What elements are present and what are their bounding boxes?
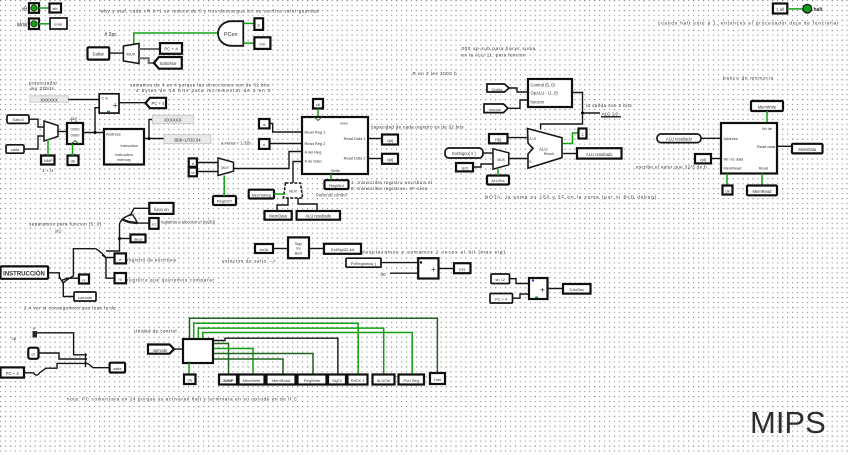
wire ctrl out green to ALUSrc tunnel	[198, 328, 383, 374]
wire ctrl out green to RegDst tunnel	[194, 323, 359, 374]
adder branch	[418, 258, 438, 278]
svg-text:ALU resultado: ALU resultado	[666, 137, 693, 142]
svg-text:x[d]: x[d]	[461, 166, 467, 171]
svg-text:00: 00	[381, 272, 387, 277]
svg-text:000 op-sub para hacer suma: 000 op-sub para hacer suma	[462, 46, 536, 51]
wire	[68, 99, 99, 101]
node select wire (PCen to demux)	[134, 33, 218, 46]
control unit box	[183, 339, 213, 363]
tunnel MemData out	[792, 144, 823, 154]
wire	[701, 137, 721, 139]
tunnel PC + 4 out	[145, 98, 166, 108]
svg-text:MemRead: MemRead	[272, 378, 290, 383]
svg-text:cuando halt este a 1, entonces: cuando halt este a 1, entonces el proces…	[658, 21, 839, 26]
wire control out	[572, 93, 600, 114]
label alb	[50, 4, 62, 13]
svg-text:PcRegistros( ): PcRegistros( )	[351, 261, 377, 266]
svg-text:R[t]: R[t]	[495, 137, 501, 142]
wire PC to memory with node	[83, 132, 104, 134]
wire green regwrite	[330, 174, 332, 180]
probe E	[254, 18, 263, 30]
svg-text:rs: rs	[119, 277, 122, 282]
data memory	[721, 123, 777, 174]
tunnel SigEx c	[328, 375, 346, 385]
svg-text:rd: rd	[191, 171, 194, 175]
svg-text:estacion de salto -->: estacion de salto -->	[222, 259, 276, 264]
svg-text:2 A ver si conseguimos que lea: 2 A ver si conseguimos que lean la de...	[24, 306, 121, 311]
svg-text:Opbits: Opbits	[492, 88, 503, 92]
svg-text:cp: cp	[12, 336, 17, 341]
wire	[711, 158, 721, 160]
tunnel x[d] alu	[456, 163, 473, 171]
wire	[513, 294, 530, 298]
wire	[174, 348, 183, 350]
svg-text:ALU: ALU	[539, 147, 548, 152]
svg-text:0: transcribe registros. 4F si: 0: transcribe registros. 4F sino	[351, 186, 428, 191]
wire instr out with node	[144, 138, 164, 140]
wire green	[766, 111, 768, 123]
wire B input	[509, 158, 528, 160]
instruction memory	[104, 129, 144, 165]
splitter S1	[59, 249, 96, 288]
svg-text:clk: clk	[71, 159, 76, 164]
wire PC+4 to merger with hop	[24, 363, 84, 375]
svg-text:SigTx: SigTx	[332, 378, 342, 383]
tunnel opcode	[148, 345, 174, 354]
svg-text:decp: decp	[134, 238, 142, 242]
wire	[139, 58, 154, 63]
svg-text:MemToReg: MemToReg	[252, 193, 271, 197]
tunnel Im16	[255, 244, 273, 253]
svg-text:+: +	[113, 101, 118, 111]
tunnel PC + 4 b	[490, 294, 513, 304]
svg-text:potenciador: potenciador	[29, 81, 58, 86]
wire select green	[223, 176, 225, 197]
wire zero flag green	[563, 133, 579, 144]
tunnel NMP select	[41, 156, 55, 165]
tunnel RegDst c	[348, 375, 368, 385]
mux RegDst	[218, 158, 234, 176]
svg-text:RegWrd: RegWrd	[329, 183, 344, 188]
and-gate PCen (facing west)	[218, 21, 243, 46]
pin halt	[773, 4, 787, 14]
svg-text:INSTRUCCIÓN: INSTRUCCIÓN	[3, 269, 45, 277]
svg-text:+: +	[540, 286, 545, 295]
svg-text:Saltar: Saltar	[93, 52, 105, 57]
wire memread green	[761, 174, 763, 186]
tunnel R[t]	[489, 134, 508, 143]
wire	[139, 48, 160, 50]
tunnel ExtSig 32bits	[324, 244, 361, 254]
wire	[787, 8, 803, 10]
box comode	[74, 292, 96, 301]
tunnel SaltoNor	[154, 57, 182, 69]
svg-text:BBb=LR33.04: BBb=LR33.04	[174, 138, 201, 143]
svg-text:A de Dato: A de Dato	[305, 159, 322, 164]
svg-text:Salto3: Salto3	[12, 117, 24, 122]
svg-text:rs: rs	[82, 278, 85, 283]
tunnel ALU resultado in	[657, 134, 701, 143]
svg-text:MUX: MUX	[289, 190, 298, 194]
adder jump	[529, 278, 548, 299]
svg-text:Wr i te data: Wr i te data	[724, 157, 745, 162]
sign extend box	[288, 237, 309, 258]
svg-text:(re): (re)	[459, 267, 466, 272]
wire control to ALU	[541, 113, 583, 130]
svg-text:1: transcribe registro escribi: 1: transcribe registro escribira el	[351, 180, 433, 185]
svg-text:memory: memory	[117, 158, 131, 162]
label PC + 4	[160, 43, 182, 54]
wire green select	[274, 193, 286, 195]
wire S1 to rs	[66, 277, 79, 279]
wire clk green	[188, 363, 190, 374]
wire	[243, 42, 254, 44]
svg-text:registro que queremos comparar: registro que queremos comparar	[127, 278, 215, 283]
tunnel ALUSrc c	[373, 375, 395, 385]
svg-text:PcU Reg: PcU Reg	[403, 378, 419, 383]
box rd small	[149, 218, 158, 229]
svg-text:E: E	[257, 22, 260, 27]
svg-text:vB: vB	[22, 7, 29, 13]
svg-text:nota: PC comenzara en 24 porqu: nota: PC comenzara en 24 porque su activ…	[67, 397, 298, 402]
wire ctrl out dark green to JUMP	[213, 344, 229, 375]
wire	[390, 272, 418, 274]
wire	[109, 52, 123, 54]
tunnel x[d] dm	[695, 154, 711, 163]
svg-text:Halt: Halt	[434, 377, 442, 382]
splitter merger	[84, 353, 110, 367]
tunnel MemToReg select	[249, 190, 274, 199]
svg-text:salta: salta	[113, 366, 122, 371]
svg-text:Read Reg 1: Read Reg 1	[305, 130, 326, 135]
svg-text:MUX: MUX	[127, 52, 136, 57]
tunnel rs in	[259, 119, 270, 128]
tunnel ALUSrc	[487, 176, 509, 185]
svg-text:x[d]: x[d]	[700, 157, 706, 162]
svg-text:R: R	[33, 327, 36, 331]
probe XXXXXX (PC value)	[30, 96, 68, 103]
tunnel suma out	[454, 263, 471, 273]
wire	[273, 248, 288, 250]
control ALU box	[528, 79, 572, 107]
svg-text:clk: clk	[187, 378, 192, 383]
label brn	[254, 37, 270, 49]
svg-text:Control (5..0): Control (5..0)	[531, 83, 556, 88]
tunnel JUMP	[219, 375, 237, 385]
wire	[473, 164, 493, 167]
wire ctrl out green to PcReg tunnel	[203, 333, 412, 375]
wire	[270, 143, 303, 145]
svg-text:MUX: MUX	[497, 158, 505, 162]
constant R	[33, 327, 38, 338]
svg-text:MrW: MrW	[17, 23, 28, 29]
wire	[197, 162, 218, 164]
svg-text:Address: Address	[724, 136, 738, 141]
svg-text:capacidad de cada registro es: capacidad de cada registro es de 32 bits	[371, 125, 464, 130]
tunnel Saltar	[88, 47, 110, 59]
tunnel clk control	[184, 375, 196, 385]
svg-text:Address: Address	[106, 132, 121, 137]
wire	[509, 88, 528, 92]
tunnel clk above register file	[313, 99, 323, 109]
box decp	[131, 235, 146, 243]
svg-text:Im16: Im16	[260, 247, 270, 252]
tunnel funcion	[484, 104, 508, 113]
demux MUX	[123, 43, 139, 63]
svg-text:comode: comode	[78, 295, 93, 300]
svg-text:ExtSigno( s ): ExtSigno( s )	[452, 151, 476, 156]
mux PCsrc	[44, 121, 58, 141]
wire mux to WriteReg	[234, 152, 303, 169]
wire ALUres up	[298, 198, 317, 211]
wire	[24, 136, 44, 149]
svg-text:MemRead: MemRead	[724, 166, 742, 171]
wire green select	[497, 169, 499, 176]
svg-text:XXXXXX: XXXXXX	[164, 118, 182, 123]
wire adder to PC bus	[95, 108, 99, 133]
tunnel rs (to mux RegDst)	[189, 158, 197, 166]
wire ctrl out dark green to box3	[213, 359, 283, 375]
input pin MrW	[17, 19, 39, 30]
wire	[510, 279, 530, 284]
svg-text:Write: Write	[331, 168, 340, 173]
svg-text:PC + 4: PC + 4	[495, 297, 508, 302]
svg-text:XXXXXX: XXXXXX	[40, 97, 58, 102]
wire ctrl out dark green to halt tunnel	[190, 318, 438, 373]
svg-text:ALU resultado: ALU resultado	[305, 214, 332, 219]
splitter S2	[96, 249, 115, 279]
svg-text:funcion: funcion	[531, 100, 545, 105]
svg-text:A <5: A <5	[530, 137, 537, 141]
tunnel ALU resultado out	[577, 148, 622, 158]
box rt	[115, 253, 127, 263]
svg-text:ALC 1,0: ALC 1,0	[602, 111, 619, 116]
wire read data 1 out	[368, 138, 382, 140]
register PC	[67, 118, 83, 145]
svg-text:MIPS: MIPS	[750, 405, 826, 440]
svg-text:Punto de control: Punto de control	[316, 193, 347, 198]
wire	[39, 23, 50, 25]
wire	[29, 119, 44, 127]
svg-text:SaltoNor: SaltoNor	[159, 61, 177, 66]
probe instr value	[164, 135, 211, 144]
svg-text:MemData: MemData	[269, 214, 287, 219]
tunnel RegDST	[213, 196, 236, 205]
svg-text:PCen: PCen	[224, 32, 238, 38]
tunnel RegWrd enable	[325, 180, 349, 189]
svg-text:B: B	[530, 160, 532, 164]
wire	[119, 102, 145, 104]
svg-text:MemRead: MemRead	[753, 189, 773, 194]
component clr	[28, 348, 38, 359]
svg-text:# 2pc: # 2pc	[105, 32, 118, 38]
tunnel PC + 4 c	[1, 367, 25, 377]
wire clk green	[72, 144, 74, 156]
svg-text:rs: rs	[263, 123, 266, 127]
svg-text:opmode: opmode	[153, 348, 169, 353]
svg-text:Instruction: Instruction	[115, 153, 133, 157]
svg-text:C in: C in	[102, 97, 108, 101]
svg-text:rd: rd	[152, 223, 155, 227]
svg-text:R en 3 les 3000 b: R en 3 les 3000 b	[413, 71, 458, 76]
wire node to decp	[120, 238, 131, 240]
tunnel ALU resultado wb	[297, 211, 340, 220]
svg-text:Read: Read	[759, 166, 768, 171]
svg-text:OpALU - (1..0): OpALU - (1..0)	[531, 91, 559, 96]
mux ALUSrc	[493, 149, 509, 169]
svg-text:x(U: x(U	[55, 229, 62, 234]
wire	[243, 22, 254, 24]
wire ctrl out black bus	[213, 338, 338, 374]
wire up from S2 to S3 with node	[106, 224, 120, 251]
svg-text:Read Data 1: Read Data 1	[344, 136, 366, 141]
label enal	[50, 18, 67, 29]
tunnel x[d] out2	[382, 154, 398, 164]
probe 0000000	[152, 115, 193, 124]
LED halt	[803, 4, 823, 13]
box rs2	[115, 273, 127, 283]
svg-text:S.ltoSec: S.ltoSec	[569, 287, 584, 292]
tunnel clk dm	[723, 186, 733, 195]
svg-text:MemWrite: MemWrite	[758, 104, 777, 109]
wire instruccion to splitter	[48, 273, 59, 279]
svg-text:ALUCtrl: ALUCtrl	[377, 378, 391, 383]
tunnel RegWrite c	[298, 375, 327, 385]
svg-text:Read Data 2: Read Data 2	[344, 156, 366, 161]
svg-text:rt: rt	[263, 143, 265, 147]
tunnel MemWrite top	[751, 101, 783, 111]
tunnel SaltoSec	[563, 284, 591, 294]
svg-text:brn: brn	[260, 41, 266, 46]
tunnel PcReg c	[399, 375, 425, 385]
svg-text:x[d]: x[d]	[387, 157, 393, 162]
svg-text:RdCK 1: RdCK 1	[351, 378, 365, 383]
wire clk green	[726, 174, 728, 186]
svg-text:halt: halt	[814, 7, 823, 13]
svg-text:Wr ite: Wr ite	[762, 126, 772, 131]
svg-text:+: +	[431, 265, 436, 274]
svg-text:separamos para funcion [5..0]: separamos para funcion [5..0]	[29, 222, 102, 227]
svg-text:0000: 0000	[71, 127, 81, 132]
svg-text:a veces = 1 32b: a veces = 1 32b	[221, 141, 251, 146]
tunnel Salto (PC src a)	[7, 115, 29, 123]
register file	[302, 117, 368, 174]
wire	[483, 152, 493, 154]
wire	[381, 262, 418, 264]
tunnel carta	[6, 145, 24, 153]
tunnel MemRead c	[267, 375, 296, 385]
svg-text:Read Reg 2: Read Reg 2	[305, 141, 326, 146]
svg-text:escribe el valor que 32/3 de b: escribe el valor que 32/3 de b	[636, 165, 707, 170]
svg-text:MemWrite: MemWrite	[243, 378, 261, 383]
svg-text:MUX: MUX	[221, 166, 229, 170]
tunnel MemRead	[747, 186, 777, 196]
tunnel Op bits	[487, 84, 509, 92]
svg-text:-NMP: -NMP	[43, 158, 54, 163]
mux MemToReg (points up)	[283, 183, 302, 198]
svg-text:alb: alb	[52, 6, 58, 11]
tunnel MemWrite c	[239, 375, 265, 385]
wire	[197, 171, 218, 173]
svg-text:Unidad de control: Unidad de control	[134, 329, 177, 334]
svg-text:clk: clk	[316, 103, 321, 107]
wire	[39, 7, 49, 9]
wire	[439, 268, 455, 270]
svg-text:1 all: 1 all	[776, 7, 784, 12]
wire writeback to A de Dato	[293, 162, 302, 184]
svg-text:rt: rt	[192, 162, 194, 166]
svg-text:0000: 0000	[71, 133, 81, 138]
tunnel PcRegistros	[346, 258, 381, 267]
svg-text:Result: Result	[544, 152, 554, 156]
tunnel shift	[491, 274, 510, 284]
alu U1	[528, 129, 563, 169]
wire	[309, 248, 324, 250]
svg-text:4 bytes de 16 bits para increm: 4 bytes de 16 bits para incrementar de 3…	[136, 88, 272, 93]
adder PC+4	[99, 94, 119, 113]
svg-text:RegDST: RegDST	[217, 199, 233, 204]
wire S1 down to comode	[63, 287, 74, 297]
svg-text:banco de memoria: banco de memoria	[723, 76, 774, 81]
svg-text:clk: clk	[725, 189, 730, 193]
svg-text:-iky 32bits: -iky 32bits	[29, 86, 55, 91]
box rs	[79, 275, 89, 284]
tunnel rt (to mux RegDst)	[189, 168, 197, 177]
tunnel clk under PC	[68, 156, 79, 166]
svg-text:PC + 4: PC + 4	[152, 101, 166, 106]
svg-text:ExtSig/32-bit: ExtSig/32-bit	[331, 247, 355, 252]
svg-text:Read data: Read data	[757, 144, 776, 149]
wire mux to PC	[58, 131, 67, 133]
svg-text:xxxx: xxxx	[340, 122, 348, 126]
wire clk green	[317, 109, 319, 118]
wire ctrl out green to box2	[213, 349, 253, 375]
wire	[508, 100, 528, 108]
svg-text:MemData: MemData	[798, 147, 816, 152]
wire read data 2 out	[368, 158, 382, 160]
wire select green	[47, 139, 49, 156]
svg-text:ALU resultado: ALU resultado	[586, 152, 613, 157]
wire	[548, 288, 564, 290]
input pin wb	[22, 3, 39, 13]
svg-text:Bext: Bext	[295, 251, 302, 255]
svg-text:sumamos de 4 en 4 porque las d: sumamos de 4 en 4 porque las direcciones…	[130, 83, 270, 88]
svg-text:x[d]: x[d]	[387, 138, 393, 143]
tunnel halt c	[430, 373, 445, 384]
svg-text:funcion: funcion	[489, 108, 501, 112]
svg-text:registro de escritura: registro de escritura	[127, 258, 176, 263]
svg-text:enal: enal	[54, 22, 62, 27]
tunnel MemData	[265, 211, 292, 220]
tunnel rt in	[259, 139, 270, 149]
wire MemData up	[277, 198, 288, 211]
svg-text:JUMP: JUMP	[222, 378, 233, 383]
tunnel INSTRUCCION	[1, 266, 49, 278]
svg-text:wby y staf; cada clk b+1 se re: wby y staf; cada clk b+1 se reduce de 0 …	[101, 9, 320, 14]
svg-text:ALUSrc: ALUSrc	[491, 178, 504, 183]
svg-text:A del Reg: A del Reg	[305, 150, 322, 155]
svg-text:RegWrite: RegWrite	[304, 378, 320, 383]
wire A input	[508, 137, 529, 139]
svg-text:PC + 4: PC + 4	[6, 371, 20, 376]
wire	[270, 124, 303, 133]
wire R to merger	[37, 333, 84, 355]
wire ctrl out green to box4	[213, 354, 313, 375]
svg-text:1 + U: 1 + U	[42, 168, 53, 173]
tunnel salta	[110, 363, 126, 373]
svg-text:registros a eleccion el (rp2b): registros a eleccion el (rp2b)(	[161, 220, 216, 225]
probe Z	[579, 129, 587, 139]
